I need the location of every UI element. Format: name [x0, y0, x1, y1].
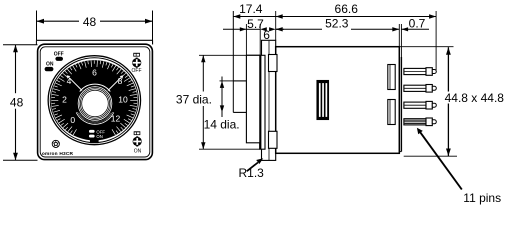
svg-text:37 dia.: 37 dia.: [176, 93, 212, 107]
dial outer ring: [48, 56, 140, 145]
side view: ventilation slots: [317, 81, 329, 120]
front view: ON indicator LED pill: [45, 67, 54, 71]
svg-text:44.8 x 44.8: 44.8 x 44.8: [445, 91, 505, 105]
svg-text:0.7: 0.7: [409, 16, 426, 30]
svg-text:R1.3: R1.3: [239, 166, 265, 180]
dim 37 dia: extension lines: [199, 54, 260, 56]
svg-text:0: 0: [70, 115, 75, 125]
svg-text:omron H3CR: omron H3CR: [42, 151, 74, 157]
svg-text:4: 4: [67, 76, 72, 86]
bottom-right screw: [133, 137, 142, 146]
ON legend pill: [89, 135, 95, 138]
side view: dial ring column: [260, 55, 265, 149]
svg-text:ON: ON: [46, 61, 54, 67]
dim: 0.7 dimension line: [402, 28, 430, 30]
dimension 48 (top): dimension line with arrows: [37, 20, 80, 22]
dial bottom tab: [90, 140, 99, 143]
bottom extension line for 44.8 dim: [404, 155, 457, 157]
svg-text:OFF: OFF: [132, 68, 142, 74]
extension lines above side view: [245, 24, 247, 55]
knob top arc: [80, 84, 111, 91]
R1.3 callout arrow: [247, 162, 258, 171]
knob bottom skirt: [76, 113, 114, 125]
svg-text:10: 10: [118, 95, 128, 105]
side view: knob bottom edge: [233, 111, 246, 113]
svg-text:14 dia.: 14 dia.: [204, 118, 240, 132]
front view: OFF indicator LED pill: [55, 57, 63, 61]
dimension 48 (top): extension lines: [36, 11, 38, 41]
svg-text:48: 48: [10, 95, 24, 109]
dim 14 dia: dimension line: [221, 77, 223, 118]
dim 44.8 x 44.8: dimension line: [447, 47, 449, 91]
dimension 48 (left): dimension line with arrows: [15, 45, 17, 93]
case top extension line to 44.8 dim: [399, 46, 453, 48]
dial pointer line to 4: [69, 78, 84, 93]
top-right screw: [132, 58, 141, 67]
knob body rings: [77, 86, 113, 122]
omron logo mark: [52, 140, 59, 147]
top-right mode label block: [133, 53, 140, 57]
bottom-right mode label block: [134, 131, 141, 135]
svg-text:66.6: 66.6: [335, 2, 359, 16]
dim 37 dia: dimension line: [202, 55, 204, 91]
side view: bottom mounting clip: [269, 131, 278, 148]
OFF legend pill: [89, 130, 95, 133]
dimension 48 (left): extension lines: [3, 44, 38, 46]
11 pins callout arrow: [420, 132, 462, 190]
side view: bezel plate: [262, 40, 276, 160]
front view: case top edge line: [36, 39, 152, 41]
side view: knob top edge: [233, 80, 246, 82]
svg-text:ON: ON: [134, 149, 142, 155]
dial second ring: [50, 58, 138, 143]
front view: bezel inner line: [40, 47, 150, 157]
svg-text:2: 2: [62, 95, 67, 105]
dim row1: 17.4 dimension line: [233, 16, 275, 18]
svg-text:OFF: OFF: [54, 51, 64, 57]
side view: rear latch slot upper: [388, 65, 395, 90]
pin 3: [404, 102, 426, 108]
side view: rear latch slot lower: [388, 100, 395, 125]
pin 1: [404, 68, 426, 74]
side view: top mounting clip: [269, 55, 278, 72]
side view: knob skirt column: [246, 55, 259, 143]
dial tick marks: [51, 60, 137, 135]
front view: bezel outer rounded square: [38, 44, 153, 159]
dim row2: 52.3 dimension line: [276, 28, 322, 30]
svg-text:52.3: 52.3: [325, 17, 349, 31]
svg-text:48: 48: [83, 15, 97, 29]
svg-text:8: 8: [118, 76, 123, 86]
side view: socket plate: [400, 57, 402, 152]
dim row1: 66.6 dimension line: [276, 16, 436, 18]
side view: case body: [276, 47, 400, 154]
side view: knob front face + extension line: [232, 11, 234, 112]
dial black disc: [51, 60, 137, 140]
svg-text:6: 6: [92, 68, 97, 78]
dim row2: 5.7/6 dimension line segments: [223, 28, 246, 30]
dim 14 dia: extension lines: [220, 80, 234, 82]
pin 2: [404, 85, 426, 91]
svg-text:ON: ON: [96, 134, 102, 139]
pin 4: [404, 119, 426, 125]
svg-text:11 pins: 11 pins: [463, 191, 501, 205]
svg-text:17.4: 17.4: [239, 2, 263, 16]
